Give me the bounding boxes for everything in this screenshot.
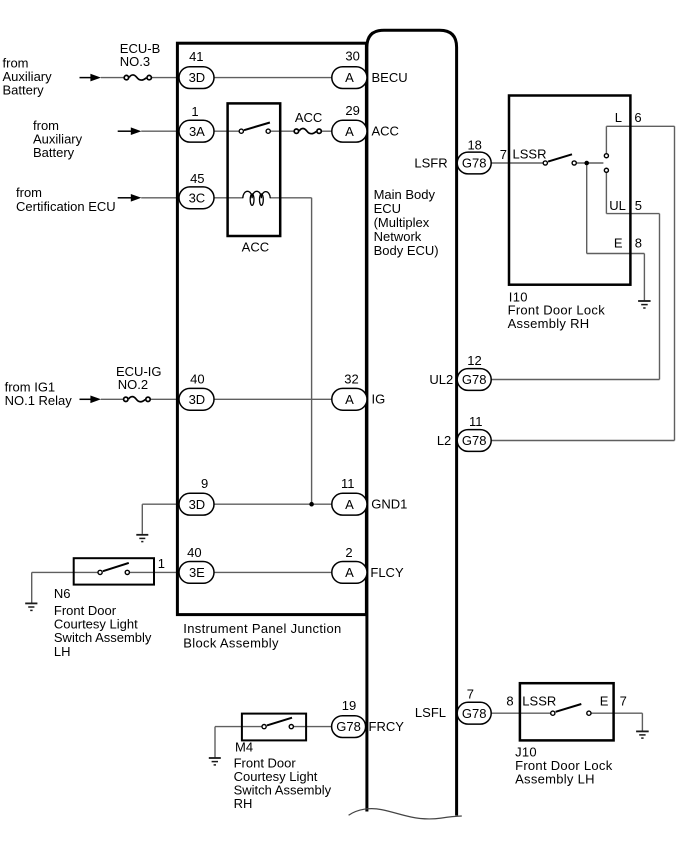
arrow from Certification ECU [118,194,142,202]
svg-text:E: E [600,693,609,708]
label N6 block [54,586,152,659]
connector G78 pin 18 [457,152,491,174]
svg-text:Block Assembly: Block Assembly [183,636,279,651]
svg-text:3D: 3D [189,497,206,512]
connector G78 pin 12 [457,369,491,391]
svg-text:A: A [345,70,354,85]
connector 3D pin 41 [179,67,214,89]
wire J10 switch row [520,712,553,714]
wire BECU row (3D-41 to A-30) [101,77,127,79]
connector G78 pin 19 [332,716,366,738]
relay ACC box [228,103,281,236]
svg-text:3D: 3D [189,70,206,85]
svg-text:9: 9 [201,476,208,491]
CONNECTOR OVALS [179,67,491,738]
svg-text:Assembly RH: Assembly RH [508,316,590,331]
connector G78 pin 11 [457,430,491,452]
svg-text:FRCY: FRCY [369,719,405,734]
label I10 block [508,289,606,331]
svg-text:ACC: ACC [242,240,269,255]
wire FLCY ground drop [31,572,33,603]
connector ACC [294,129,321,134]
connector 3A pin 1 [179,120,214,142]
svg-text:Certification ECU: Certification ECU [16,199,116,214]
N6 courtesy switch box [74,558,154,584]
wire L2 row (G78-11 to L vertical) [491,440,674,442]
svg-text:NO.3: NO.3 [120,54,150,69]
relay ACC switch contacts [239,129,270,133]
connector 3D pin 40 [179,388,214,410]
wire E down from common node [586,163,588,254]
wire UL horizontal pin 5 [606,213,659,215]
wire coil output to vertical [270,197,311,199]
wire L vertical down right side [674,126,676,440]
connector ECU-B NO.3 [124,75,151,80]
svg-text:FLCY: FLCY [370,565,404,580]
svg-text:N6: N6 [54,586,71,601]
svg-text:6: 6 [634,110,641,125]
svg-text:8: 8 [506,693,513,708]
svg-text:5: 5 [635,198,642,213]
ground M4 switch [209,758,221,765]
svg-text:BECU: BECU [372,70,408,85]
label from Certification ECU [16,185,116,214]
svg-text:7: 7 [500,147,507,162]
svg-text:UL2: UL2 [429,372,453,387]
svg-text:G78: G78 [462,433,487,448]
svg-text:3C: 3C [189,190,206,205]
GROUNDS [25,301,650,765]
N6 switch blade [103,563,129,571]
CONNECTORS (wavy) [124,75,322,402]
svg-text:A: A [345,124,354,139]
svg-text:12: 12 [467,353,481,368]
svg-text:NO.2: NO.2 [118,377,148,392]
connector A pin 29 [332,120,367,142]
wire E horizontal pin 8 [587,253,645,255]
svg-text:Body ECU): Body ECU) [374,243,439,258]
connector G78 pin 7 [457,702,491,724]
wire J10 ground drop [641,713,643,731]
arrow from IG1 NO.1 Relay [80,396,102,404]
wire E ground drop [643,254,645,301]
wire FLCY row left (ground to N6 to 3E) [32,571,100,573]
svg-text:M4: M4 [235,740,253,755]
svg-text:(Multiplex: (Multiplex [374,215,430,230]
ground GND1 row [136,535,148,542]
I10 throw contacts L and UL [604,154,608,173]
svg-text:G78: G78 [336,719,361,734]
svg-text:11: 11 [341,476,355,491]
label from Auxiliary Battery (top) [3,56,53,98]
svg-text:Battery: Battery [33,145,75,160]
svg-text:41: 41 [189,49,203,64]
wire Certification row (to 3C and relay coil) [141,197,243,199]
wire GND1 ground drop [141,504,143,534]
Main Body ECU bottom wave [349,809,462,819]
connector A pin 11 [332,493,367,515]
M4 switch contacts [262,725,293,729]
connector A pin 30 [332,67,367,89]
label Main Body ECU [374,187,439,258]
J10 LSSR switch blade [556,704,582,712]
wire FRCY row (ground to M4 to G78-19) [215,726,264,728]
wire UL contact down [605,173,607,214]
wire GND1 row (ground to A-11) [142,503,331,505]
svg-text:1: 1 [191,104,198,119]
svg-text:RH: RH [234,796,253,811]
wire LSFL row (G78-7 to J10) [491,712,520,714]
wire L contact up [605,126,607,153]
svg-text:L: L [615,110,622,125]
svg-text:7: 7 [467,686,474,701]
label J10 block [515,744,613,786]
label ECU-IG NO.2 [116,364,162,392]
ground N6 switch [25,603,37,610]
relay ACC switch blade [244,123,270,131]
svg-text:ACC: ACC [295,110,322,125]
label ECU-B NO.3 [120,41,160,69]
svg-text:E: E [614,235,623,250]
arrow from Auxiliary Battery (BECU row) [80,74,102,82]
svg-text:LSSR: LSSR [522,693,556,708]
arrow from Auxiliary Battery (ACC row) [118,127,142,135]
node junction dot GND1 [309,502,314,507]
ground J10 E pin [636,731,649,738]
I10 LSSR switch blade [548,154,572,161]
J10 front door lock box [520,683,614,740]
connector 3C pin 45 [179,187,214,209]
svg-text:40: 40 [190,371,204,386]
svg-text:18: 18 [467,137,481,152]
svg-text:7: 7 [620,693,627,708]
I10 front door lock box [509,96,630,285]
wire vertical from coil down to GND1 row [311,198,313,504]
wire UL2 row (G78-12 to UL vertical) [491,379,659,381]
svg-text:G78: G78 [462,372,487,387]
svg-text:G78: G78 [462,156,487,171]
svg-text:GND1: GND1 [371,497,407,512]
svg-text:NO.1 Relay: NO.1 Relay [5,393,73,408]
svg-text:G78: G78 [462,706,487,721]
svg-text:3A: 3A [189,124,205,139]
svg-text:45: 45 [190,171,204,186]
svg-text:40: 40 [187,545,201,560]
connector 3E pin 40 [179,562,214,584]
J10 LSSR switch contacts [551,711,591,715]
svg-text:IG: IG [372,392,386,407]
svg-text:Assembly LH: Assembly LH [515,771,595,786]
svg-text:Main Body: Main Body [374,187,436,202]
connector A pin 32 [332,388,367,410]
Instrument Panel Junction Block Assembly box [177,43,366,614]
M4 switch blade [267,718,292,726]
svg-text:Instrument Panel Junction: Instrument Panel Junction [183,621,341,636]
M4 courtesy switch box [242,714,306,741]
wire J10 E pin 7 out [614,712,643,714]
svg-text:L2: L2 [437,433,451,448]
svg-text:2: 2 [345,545,352,560]
connector A pin 2 [332,562,367,584]
svg-text:LSFR: LSFR [414,156,447,171]
svg-text:Battery: Battery [3,83,45,98]
wire ACC row (3A-1 to A-29) [141,130,241,132]
svg-text:ECU: ECU [374,201,401,216]
ground I10 E pin [638,301,651,308]
I10 LSSR switch contacts [543,161,576,165]
label from Auxiliary Battery (second) [33,118,83,160]
svg-text:19: 19 [342,698,356,713]
svg-text:32: 32 [344,372,358,387]
svg-text:1: 1 [158,556,165,571]
svg-text:LH: LH [54,644,71,659]
svg-text:3E: 3E [189,565,205,580]
svg-text:3D: 3D [189,392,206,407]
svg-text:11: 11 [469,414,483,429]
svg-text:from: from [16,185,42,200]
N6 switch contacts [98,570,129,574]
connector ECU-IG NO.2 [124,397,151,402]
node common junction dot I10 [584,161,589,166]
svg-text:UL: UL [609,198,626,213]
svg-text:ACC: ACC [372,123,399,138]
svg-text:30: 30 [345,49,359,64]
svg-text:A: A [345,565,354,580]
relay ACC coil [243,191,270,205]
wire UL vertical down [659,214,661,380]
label M4 block [234,740,332,812]
wire IG row (3D-40 to A-32) [101,398,126,400]
wire FRCY ground drop [214,727,216,758]
svg-text:LSSR: LSSR [513,146,547,161]
label Instrument Panel Junction Block Assembly [183,621,341,651]
ARROWS [80,74,142,403]
connector 3D pin 9 [179,493,214,515]
svg-text:29: 29 [345,103,359,118]
svg-text:A: A [345,497,354,512]
wire FLCY row inner (3E to A-2) [214,571,331,573]
svg-text:Network: Network [374,229,422,244]
svg-text:A: A [345,392,354,407]
svg-text:8: 8 [635,235,642,250]
Main Body ECU outline [367,30,457,815]
svg-text:LSFL: LSFL [415,705,446,720]
svg-text:Switch Assembly: Switch Assembly [54,630,152,645]
wire L horizontal pin 6 [606,125,674,127]
label from IG1 NO.1 Relay [5,380,73,408]
wire LSFR row (G78-18 to I10 switch) [491,162,545,164]
